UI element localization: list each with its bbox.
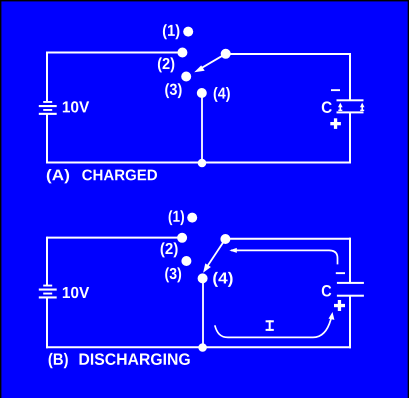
wire: A right vertical upper <box>349 53 351 100</box>
label (3) A <box>165 83 181 98</box>
caption (B) DISCHARGING <box>49 353 68 368</box>
wire: B left vertical lower <box>46 297 48 348</box>
value label 10V (B) <box>63 287 89 298</box>
wire: B right vertical upper <box>349 238 351 283</box>
current arrow (top, pointing left toward switch) <box>229 248 337 265</box>
switch S2 (B) arm <box>207 239 225 267</box>
wire: A top-left horizontal <box>47 52 182 54</box>
switch S1 (A) arm arrowhead <box>194 65 205 72</box>
junction node on B bottom wire <box>198 343 207 352</box>
wire: B right vertical lower <box>349 296 351 349</box>
battery BT2 (10V) plates <box>39 285 57 299</box>
switch S2 (B) pivot dot <box>220 234 230 244</box>
wire: B bottom horizontal <box>46 346 351 348</box>
label (1) B <box>169 210 184 225</box>
label C (A) <box>322 101 332 113</box>
switch S2 (B) contact dot 4 <box>198 273 208 283</box>
charge arrow inside capacitor A (left) <box>338 103 343 111</box>
wire: A right vertical lower <box>349 112 351 163</box>
wire: A from dot 4 down to bottom <box>201 93 203 163</box>
wire: A top-right horizontal <box>226 53 350 55</box>
capacitor C (B) plates <box>337 282 364 297</box>
switch S1 (A) contact dot 2 <box>177 48 187 58</box>
current label I <box>266 320 274 331</box>
caption (A) CHARGED <box>47 169 69 183</box>
switch S1 (A) pivot dot <box>221 49 231 59</box>
wire: B left vertical upper <box>46 237 48 286</box>
switch S2 (B) contact dot 2 <box>177 233 187 243</box>
wire: B top-left horizontal <box>47 237 182 239</box>
charge arrow inside capacitor A (right) <box>360 103 365 111</box>
wire: B top-right horizontal <box>225 238 350 240</box>
label (4) B <box>213 272 232 287</box>
switch S2 (B) contact dot 1 <box>187 213 197 223</box>
plus polarity sign (A) <box>330 118 341 129</box>
current arrow (bottom swoosh with up arrowhead) <box>215 312 335 337</box>
battery BT1 (10V) plates <box>39 101 57 115</box>
wire: B from dot 4 down to bottom <box>202 278 204 347</box>
wire: A bottom horizontal <box>46 162 351 164</box>
minus polarity sign (B) <box>336 272 345 274</box>
wire: A left vertical lower <box>46 114 48 164</box>
value label 10V (A) <box>63 101 89 112</box>
switch S1 (A) contact dot 1 <box>183 27 193 37</box>
label (2) A <box>158 57 174 72</box>
label (3) B <box>165 267 181 282</box>
label (4) A <box>214 87 230 102</box>
switch S2 (B) contact dot 3 <box>181 256 191 266</box>
label (1) A <box>163 24 180 39</box>
switch S1 (A) arm <box>201 54 226 69</box>
wire: A left vertical upper <box>46 52 48 102</box>
switch S1 (A) contact dot 4 <box>197 88 207 98</box>
capacitor C (A) plates <box>337 99 364 113</box>
label C (B) <box>322 285 332 297</box>
label (2) B <box>161 242 178 257</box>
switch S1 (A) contact dot 3 <box>181 72 191 82</box>
minus polarity sign (A) <box>331 89 340 91</box>
plus polarity sign (B) <box>334 300 345 311</box>
junction node on A bottom wire <box>198 159 207 168</box>
switch S2 (B) arm arrowhead <box>203 263 211 272</box>
